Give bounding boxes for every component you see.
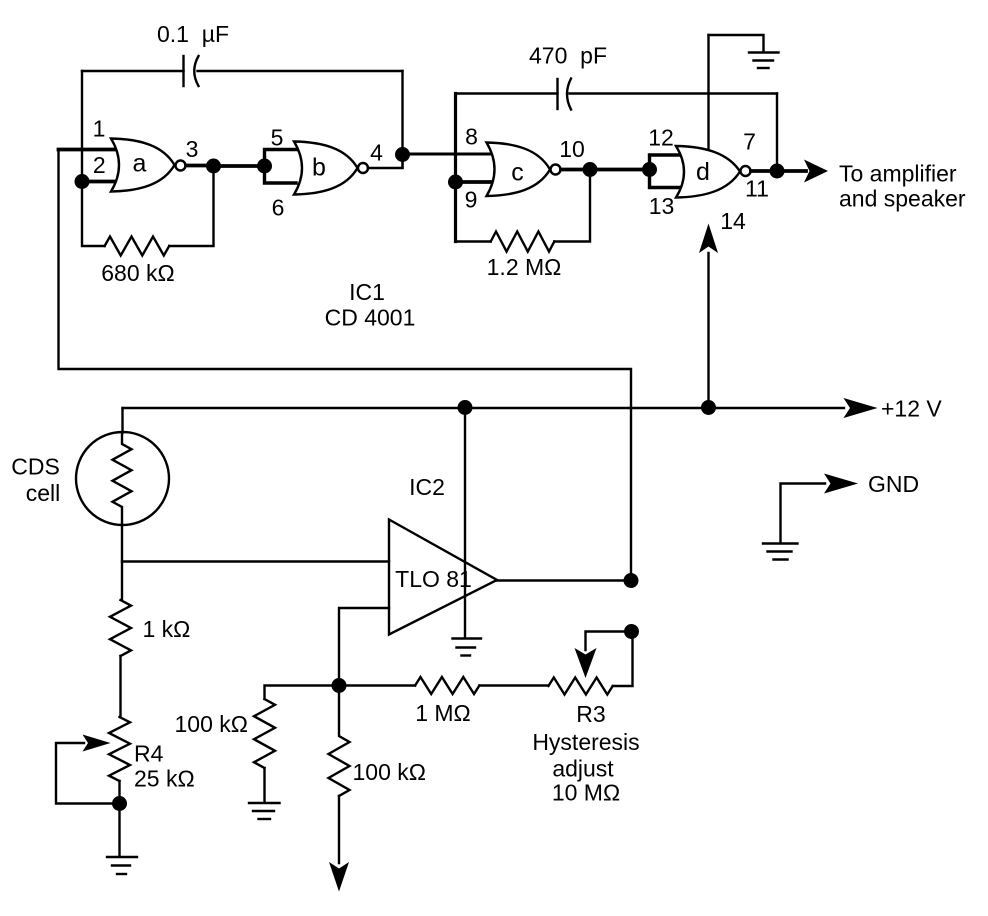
- wire: R3 right leg up to wiper node: [613, 632, 633, 687]
- wire: 1.2M right leg up to node 10: [554, 170, 590, 242]
- gate d input bracket pins 12,13: [650, 155, 682, 188]
- node: R4 bottom junction: [112, 796, 127, 811]
- node 4 junction: [395, 147, 410, 162]
- wire: CDS bottom to divider junction: [121, 525, 123, 600]
- resistor 1.2M zigzag: [491, 232, 555, 252]
- arrow: down to negative supply: [329, 862, 349, 892]
- inversion bubble gate a output pin 3: [176, 161, 186, 171]
- svg-text:12: 12: [648, 125, 674, 151]
- svg-text:TLO 81: TLO 81: [395, 566, 472, 592]
- wire: gate b output with jog up to node 4: [368, 155, 403, 169]
- arrow: R3 wiper down: [575, 648, 597, 678]
- arrow: R4 wiper: [83, 735, 111, 752]
- svg-text:5: 5: [271, 124, 284, 150]
- wire: R4 bottom to ground: [118, 781, 120, 856]
- wire: pin1 input of gate a: [59, 148, 119, 152]
- svg-text:1.2 MΩ: 1.2 MΩ: [487, 254, 562, 280]
- node 10 junction: [583, 162, 598, 177]
- svg-text:IC1: IC1: [349, 279, 385, 305]
- svg-text:0.1 µF: 0.1 µF: [157, 21, 229, 47]
- capacitor 0.1uF: [184, 56, 199, 86]
- wire: op-amp inverting input: [339, 608, 389, 686]
- svg-text:1 kΩ: 1 kΩ: [143, 616, 191, 642]
- svg-text:14: 14: [720, 208, 746, 234]
- svg-text:cell: cell: [26, 480, 61, 506]
- resistor 100k middle zigzag: [329, 686, 350, 797]
- svg-text:9: 9: [465, 187, 478, 213]
- wire: gate c output to gate d tie: [561, 168, 650, 172]
- node: R3 wiper junction: [624, 624, 639, 639]
- wire: 1.2M bottom left segment: [456, 240, 491, 242]
- wire: pin 14 supply line: [707, 253, 709, 408]
- node: rail / IC2 supply junction: [458, 400, 473, 415]
- svg-text:4: 4: [370, 140, 383, 166]
- wire: 100k left to ground: [263, 768, 265, 801]
- arrow: +12V: [844, 398, 878, 418]
- node: gate d input tie junction: [642, 162, 657, 177]
- wire: 680k feedback loop around gate a: [169, 166, 213, 246]
- photoresistor CDS cell circle: [76, 432, 169, 525]
- svg-text:1: 1: [93, 116, 106, 142]
- ground: top right: [749, 53, 779, 69]
- wire: 1k to R4: [119, 656, 121, 717]
- node 3 junction: [206, 159, 221, 174]
- wire: R4 wiper to bottom node: [56, 743, 120, 804]
- wire: 0.1uF feedback top left segment: [82, 70, 184, 72]
- svg-text:10: 10: [559, 136, 585, 162]
- resistor 1M zigzag: [415, 677, 479, 694]
- svg-text:100 kΩ: 100 kΩ: [175, 711, 248, 737]
- svg-text:13: 13: [649, 193, 675, 219]
- svg-text:7: 7: [743, 129, 756, 155]
- resistor 1k zigzag: [110, 600, 131, 656]
- wire: 680k left leg up to pin2 node: [82, 182, 105, 247]
- svg-text:10 MΩ: 10 MΩ: [552, 780, 620, 806]
- node: rail / pin14 junction: [701, 400, 716, 415]
- node: pin2 / 0.1uF / 680k junction: [75, 174, 90, 189]
- svg-text:adjust: adjust: [552, 756, 614, 782]
- inversion bubble gate d output pin 11: [741, 166, 751, 176]
- svg-text:and speaker: and speaker: [839, 186, 966, 212]
- wire: gate d output: [751, 169, 806, 173]
- gate U1a NOR: [111, 139, 175, 192]
- svg-text:3: 3: [186, 136, 199, 162]
- svg-text:2: 2: [93, 152, 106, 178]
- ground: below R4: [107, 857, 137, 874]
- svg-text:GND: GND: [868, 471, 919, 497]
- resistor 100k left zigzag: [254, 699, 275, 768]
- node: feedback junction: [332, 678, 347, 693]
- op-amp U2 TLO81 triangle: [389, 520, 497, 635]
- arrow: GND: [824, 474, 858, 494]
- gate U1c NOR: [487, 143, 551, 197]
- svg-text:6: 6: [272, 194, 285, 220]
- svg-text:680 kΩ: 680 kΩ: [101, 260, 174, 286]
- wire: node 4 to gate c pin 8: [403, 153, 493, 156]
- svg-text:c: c: [511, 159, 524, 187]
- wire: pin 7 VSS drop into gate d: [707, 35, 709, 150]
- wire: R3 wiper to node: [586, 632, 632, 651]
- wire: op-amp non-inverting input: [122, 560, 389, 562]
- CDS cell internal zigzag: [113, 433, 132, 525]
- svg-text:25 kΩ: 25 kΩ: [134, 766, 195, 792]
- wire: +12V rail: [123, 407, 845, 409]
- wire: rail down to CDS cell: [121, 408, 123, 433]
- svg-text:+12 V: +12 V: [881, 396, 942, 422]
- wire: node 3 to gate b input tie: [214, 164, 265, 168]
- svg-text:470 pF: 470 pF: [529, 43, 607, 69]
- arrow: to amplifier: [804, 160, 828, 183]
- svg-text:8: 8: [465, 123, 478, 149]
- wire: 0.1uF feedback top right segment: [198, 70, 403, 72]
- svg-text:R4: R4: [134, 741, 164, 767]
- wire: 470pF left drop to pin9 and 1.2M bottom: [454, 94, 457, 242]
- ground: GND symbol: [763, 544, 798, 560]
- wire: right drop from 0.1uF to node 4: [401, 71, 403, 155]
- wire: top ground arm: [709, 35, 764, 52]
- node: gate b input tie junction: [257, 159, 272, 174]
- svg-text:To amplifier: To amplifier: [839, 161, 957, 187]
- wire: GND stub: [781, 484, 826, 543]
- wire: 470pF right drop to output node: [776, 94, 778, 172]
- svg-text:11: 11: [745, 176, 769, 202]
- svg-text:CD 4001: CD 4001: [325, 305, 416, 331]
- svg-text:1 MΩ: 1 MΩ: [415, 700, 471, 726]
- svg-text:a: a: [133, 150, 147, 178]
- gate U1d NOR: [676, 146, 740, 198]
- wire: feedback row left segment: [265, 686, 340, 700]
- potentiometer R4 zigzag: [109, 717, 130, 781]
- node: op-amp output junction: [624, 573, 639, 588]
- wire: feedback junction to 1M: [339, 684, 415, 686]
- inversion bubble gate b output: [358, 163, 368, 173]
- gate b input bracket pins 5,6: [265, 150, 297, 184]
- wire: 1M to R3: [479, 684, 548, 686]
- svg-text:IC2: IC2: [409, 474, 445, 500]
- wire: 470pF top right segment: [570, 92, 778, 94]
- ground: below 100k left: [249, 803, 280, 819]
- gate U1b NOR: [294, 142, 358, 195]
- inversion bubble gate c output: [551, 165, 561, 175]
- ground: op-amp negative supply: [453, 639, 482, 656]
- wire: 100k middle to arrow: [338, 796, 340, 863]
- svg-text:CDS: CDS: [11, 454, 60, 480]
- capacitor 470pF: [558, 79, 572, 110]
- svg-text:Hysteresis: Hysteresis: [532, 729, 639, 755]
- wire: IC2 supply through op-amp to ground: [464, 408, 466, 637]
- svg-text:R3: R3: [576, 701, 605, 727]
- resistor 680k zigzag: [105, 237, 170, 256]
- wire: left drop from 0.1uF to pin2 node: [81, 71, 83, 182]
- node: output / 470pF junction: [770, 164, 785, 179]
- wire: pin2 input of gate a: [82, 180, 118, 184]
- node: pin 9 tie junction: [448, 175, 463, 190]
- svg-text:100 kΩ: 100 kΩ: [353, 759, 426, 785]
- wire: oscillator enable line from pin1 down and across to comparator output: [59, 150, 632, 582]
- arrow: pin 14 up: [699, 224, 718, 254]
- svg-text:b: b: [312, 154, 326, 182]
- wire: gate a output to node 3: [186, 164, 214, 168]
- wire: pin 9 stub: [456, 180, 493, 184]
- svg-text:d: d: [696, 158, 710, 186]
- potentiometer R3 zigzag: [548, 678, 612, 695]
- wire: 470pF top left segment: [456, 92, 558, 94]
- wire: op-amp output: [497, 579, 631, 581]
